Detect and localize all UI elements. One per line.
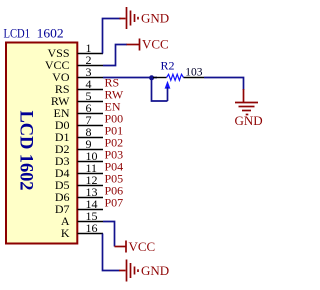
power port VCC top (bar style) <box>127 39 140 51</box>
wire R2 to ground <box>204 78 244 91</box>
svg-text:103: 103 <box>185 66 203 78</box>
wire pin3 to R2 <box>103 77 157 79</box>
svg-text:16: 16 <box>86 221 98 235</box>
junction node VO <box>149 75 154 80</box>
wire pin16 to GND bottom <box>103 234 120 271</box>
pin 2 (VCC) <box>45 53 103 72</box>
pin 7 (D0) <box>55 113 103 132</box>
pin 4 (RS) <box>55 77 103 96</box>
pin 11 (D4) <box>55 161 103 180</box>
pin 13 (D6) <box>55 185 103 204</box>
svg-text:P07: P07 <box>105 196 124 210</box>
svg-text:LCD 1602: LCD 1602 <box>16 111 36 191</box>
power port VCC bottom (bar style) <box>115 241 127 253</box>
LCD module U-box LCD1 <box>6 43 77 244</box>
pin 6 (EN) <box>54 101 104 120</box>
pin 3 (VO) <box>52 65 103 84</box>
pin 1 (VSS) <box>47 41 103 60</box>
svg-text:LCD1: LCD1 <box>4 26 31 41</box>
svg-text:GND: GND <box>235 113 263 128</box>
wire pin2 to VCC top <box>103 45 127 66</box>
pin 10 (D3) <box>55 149 103 168</box>
wire wiper loop <box>152 78 168 102</box>
svg-text:K: K <box>61 226 70 240</box>
ground GND right (earth style) <box>235 89 258 115</box>
power port GND bottom (bar style) <box>119 260 138 282</box>
wire pin15 to VCC bottom <box>103 222 115 247</box>
svg-text:R2: R2 <box>161 59 175 73</box>
pin 16 (K) <box>61 221 103 240</box>
pin 9 (D2) <box>55 137 103 156</box>
pin 15 (A) <box>61 209 103 228</box>
resistor R2 (potentiometer) <box>153 74 204 101</box>
pin 12 (D5) <box>55 173 103 192</box>
svg-text:GND: GND <box>141 263 169 278</box>
svg-text:GND: GND <box>141 11 169 26</box>
svg-text:VCC: VCC <box>129 239 156 254</box>
pin 14 (D7) <box>55 197 103 216</box>
svg-text:1602: 1602 <box>37 26 64 41</box>
pin 8 (D1) <box>55 125 103 144</box>
svg-text:VCC: VCC <box>142 37 169 52</box>
power port GND top (bar style) <box>120 7 139 29</box>
pin 5 (RW) <box>51 89 103 108</box>
wire pin1 to GND top <box>103 19 121 54</box>
